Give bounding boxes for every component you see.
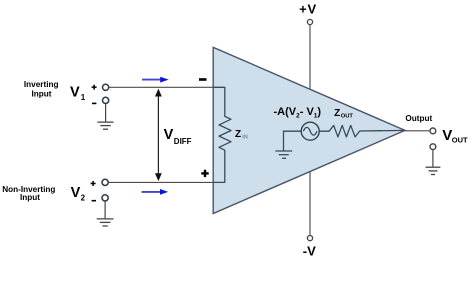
svg-text:V: V	[70, 85, 80, 101]
svg-text:2: 2	[81, 193, 86, 202]
svg-text:+V: +V	[299, 2, 317, 17]
svg-text:Z: Z	[235, 129, 241, 140]
svg-text:-V: -V	[303, 244, 316, 259]
svg-text:OUT: OUT	[452, 136, 468, 145]
svg-text:1: 1	[81, 93, 86, 102]
svg-text:Input: Input	[31, 89, 51, 98]
svg-text:V: V	[164, 127, 174, 143]
svg-text:V: V	[71, 185, 81, 201]
svg-text:Output: Output	[405, 114, 432, 123]
svg-text:Z: Z	[334, 108, 340, 119]
svg-text:Inverting: Inverting	[24, 80, 59, 89]
svg-text:IN: IN	[242, 135, 248, 141]
svg-text:OUT: OUT	[341, 114, 354, 120]
svg-text:Input: Input	[20, 193, 40, 202]
svg-text:DIFF: DIFF	[174, 137, 192, 146]
